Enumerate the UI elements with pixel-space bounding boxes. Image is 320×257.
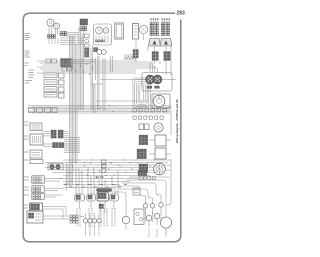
horn H1 bbox=[48, 164, 63, 170]
lamp B13 meter bbox=[83, 219, 87, 223]
battery BT1 bbox=[30, 134, 43, 145]
connector CN12 tails bbox=[147, 86, 149, 88]
label text block A bbox=[25, 33, 31, 35]
wire pair G vertical bbox=[93, 84, 95, 113]
wire bundle B vertical bbox=[78, 27, 80, 110]
unit U19 box bbox=[27, 211, 43, 223]
connector CN9 main bbox=[61, 59, 63, 61]
unit U14 bbox=[30, 150, 42, 158]
connector CN3 under relay bbox=[80, 27, 82, 29]
lamp B15 meter bbox=[92, 219, 96, 223]
connector CN5 right switch bbox=[161, 23, 163, 25]
label margin battery bbox=[24, 121, 29, 123]
unit U10 blocks bbox=[139, 124, 144, 129]
connector CN14 bbox=[137, 149, 140, 152]
wire switch grid stems bbox=[150, 18, 152, 22]
wire CN9 right leads bbox=[73, 59, 96, 61]
wire meter lamp feeds bbox=[85, 213, 87, 219]
relay RL2 pair bbox=[51, 130, 53, 132]
lamp B3 pilot bbox=[139, 25, 147, 33]
coil T4 bbox=[110, 194, 119, 201]
switch SW1 housing bbox=[149, 39, 161, 47]
label text block B bbox=[25, 50, 30, 52]
lamp B5 indicator bbox=[101, 50, 106, 55]
relay RL3 bbox=[53, 143, 55, 145]
label margin mid bbox=[29, 69, 35, 71]
unit U7 small col bbox=[59, 73, 65, 78]
wire relay links bbox=[43, 131, 51, 133]
lamp B10 bbox=[146, 215, 152, 221]
unit U2 vertical box bbox=[133, 24, 139, 40]
unit U11 rectifier bbox=[155, 135, 166, 146]
label tags above coils bbox=[64, 184, 67, 186]
coil T1 bbox=[75, 194, 85, 201]
component row R3 bbox=[139, 177, 142, 180]
component row dark small bbox=[96, 176, 100, 178]
wire switch drops bbox=[154, 46, 156, 51]
wire stack leads bbox=[44, 178, 63, 180]
lamp L2 front turn signal bbox=[54, 23, 60, 29]
connector CN13 bbox=[139, 135, 142, 138]
wire tail feeds bbox=[116, 186, 146, 203]
connector CN15 bbox=[32, 176, 44, 183]
wire long H3 bbox=[100, 79, 176, 81]
connector CN12 pin circle B bbox=[153, 75, 162, 84]
unit U6 box row4 bbox=[44, 92, 57, 97]
connector CN11 pair bbox=[94, 48, 96, 50]
headlamp housing bbox=[94, 24, 112, 45]
unit U20 chain vertical bbox=[102, 160, 106, 163]
wire coil drops bbox=[75, 168, 77, 195]
lamp B7 rear signal bbox=[150, 204, 155, 209]
wire lamp stems bbox=[48, 26, 50, 34]
connector CN20 stator bbox=[138, 171, 141, 173]
lamp B11 bbox=[154, 213, 160, 219]
connector CN10 dark pair bbox=[85, 48, 87, 50]
unit U17 small box bbox=[133, 188, 140, 195]
wire fan mid-left bbox=[64, 137, 80, 139]
connector CN16 bbox=[32, 186, 44, 192]
coil T2 bbox=[87, 194, 96, 201]
wire band H2 bbox=[28, 105, 170, 107]
connector CN7 bbox=[164, 52, 167, 55]
unit U9 chain bbox=[85, 34, 90, 38]
label under meter lamps bbox=[85, 227, 87, 236]
wire right column verticals bbox=[170, 46, 172, 75]
relay RL1 flasher bbox=[80, 19, 88, 25]
wire trio E vertical bbox=[110, 56, 112, 72]
lamp B9 brake bbox=[122, 216, 130, 224]
unit U21 small boxes bbox=[46, 59, 51, 63]
wire band H4 bbox=[63, 159, 171, 161]
svg-text:283: 283 bbox=[177, 11, 186, 17]
unit U3 box row1 bbox=[44, 73, 57, 78]
unit U12 regulator bbox=[155, 148, 166, 159]
lamp B4 indicator bbox=[97, 50, 102, 55]
component row R1 bbox=[133, 109, 136, 112]
connector CN2 bbox=[60, 32, 62, 34]
connector CN17 bbox=[32, 193, 44, 199]
svg-text:Wiring diagram - XS650 E and U: Wiring diagram - XS650 E and US bbox=[175, 99, 179, 143]
connector CN12 housing bbox=[142, 73, 172, 92]
gauge G1 bbox=[154, 123, 163, 132]
component row R0 left bbox=[29, 108, 35, 113]
lamp B12 tail bbox=[160, 217, 171, 228]
coil T3 main bbox=[97, 189, 112, 192]
unit U1 double box bbox=[115, 23, 124, 39]
junction dots bbox=[69, 63, 70, 64]
headlamp bulb B2 bbox=[103, 28, 109, 34]
unit U4 box row2 bbox=[44, 80, 57, 85]
unit U16 dark box bbox=[30, 203, 43, 211]
wire bundle A tails bbox=[66, 163, 68, 191]
diode block D1 bbox=[124, 56, 127, 59]
wire upper-left feeds bbox=[60, 37, 84, 39]
unit U15 bbox=[30, 160, 43, 164]
wire loop nest left of ignition bbox=[133, 78, 151, 108]
label margin bottom-left bbox=[24, 176, 29, 178]
unit U13 fuse box bbox=[30, 123, 42, 130]
wire rect links bbox=[149, 139, 155, 141]
wire bundle D vertical bbox=[102, 58, 104, 110]
connector CN6 bbox=[152, 52, 155, 55]
alternator M1 bbox=[154, 163, 166, 175]
connector CN12 pin circle A bbox=[146, 75, 155, 84]
page frame bbox=[23, 13, 181, 242]
wire bundle A vertical bbox=[69, 36, 71, 163]
wire band H1 bbox=[37, 60, 136, 62]
unit U5 box row3 bbox=[44, 87, 57, 92]
unit U8 small boxes bbox=[62, 68, 67, 72]
connector CN18 alternator bbox=[139, 164, 142, 166]
connector CN19 bbox=[70, 215, 72, 217]
switch SW2 housing bbox=[160, 39, 172, 47]
unit U18 box bbox=[134, 209, 144, 224]
headlamp pins bbox=[95, 36, 97, 44]
wire pair C vertical bbox=[97, 56, 99, 110]
lamp B6 rear signal bbox=[143, 204, 148, 209]
wire CN2 leads bbox=[67, 32, 80, 34]
component row R2 bbox=[133, 116, 136, 119]
wire CN1 tails bbox=[48, 39, 50, 45]
lamp B14 meter bbox=[88, 219, 92, 223]
connector CN1 lamp leads bbox=[48, 35, 50, 37]
connector CN8 bbox=[133, 50, 135, 52]
lamp B16 meter bbox=[97, 219, 101, 223]
lamp L1 front turn signal bbox=[47, 19, 54, 26]
lamp B8 rear signal bbox=[159, 203, 164, 208]
switch SW3 ignition bbox=[152, 94, 170, 108]
label under tail lamps bbox=[145, 212, 147, 222]
wire loops into CN12 bbox=[136, 62, 150, 72]
headlamp bulb B1 bbox=[96, 27, 103, 34]
label under coils bbox=[76, 208, 78, 227]
connector CN4 left switch bbox=[150, 23, 152, 25]
wire U16 lead bbox=[43, 207, 67, 216]
